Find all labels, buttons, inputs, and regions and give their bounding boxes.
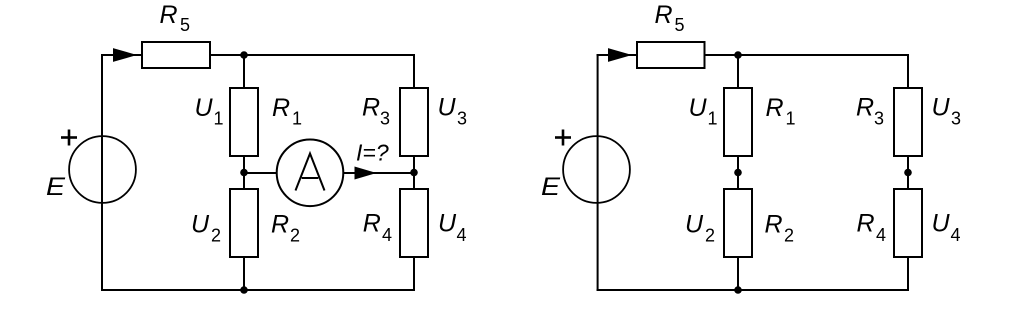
svg-text:5: 5 — [180, 15, 190, 35]
svg-text:E: E — [541, 173, 560, 201]
svg-text:R: R — [160, 1, 178, 29]
svg-text:2: 2 — [784, 225, 794, 245]
svg-text:I=?: I=? — [356, 140, 389, 166]
svg-text:U: U — [191, 211, 210, 239]
svg-text:R: R — [272, 94, 290, 122]
svg-text:4: 4 — [457, 225, 467, 245]
svg-text:3: 3 — [380, 108, 390, 128]
svg-text:R: R — [765, 211, 783, 239]
svg-text:R: R — [362, 94, 380, 122]
svg-text:R: R — [766, 94, 784, 122]
svg-text:U: U — [195, 94, 214, 122]
svg-text:R: R — [363, 210, 381, 238]
svg-text:R: R — [655, 1, 673, 29]
svg-text:1: 1 — [214, 108, 224, 128]
svg-text:1: 1 — [786, 108, 796, 128]
svg-text:R: R — [271, 211, 289, 239]
svg-text:1: 1 — [292, 108, 302, 128]
svg-text:R: R — [857, 210, 875, 238]
svg-text:2: 2 — [211, 225, 221, 245]
svg-text:3: 3 — [951, 108, 961, 128]
svg-text:5: 5 — [675, 15, 685, 35]
svg-text:E: E — [46, 173, 65, 201]
svg-text:1: 1 — [708, 108, 718, 128]
svg-text:4: 4 — [951, 225, 961, 245]
svg-text:3: 3 — [457, 108, 467, 128]
svg-text:2: 2 — [290, 225, 300, 245]
svg-text:3: 3 — [874, 108, 884, 128]
svg-text:U: U — [689, 94, 708, 122]
svg-text:R: R — [856, 94, 874, 122]
svg-text:U: U — [438, 210, 457, 238]
svg-text:U: U — [932, 94, 951, 122]
svg-text:U: U — [438, 94, 457, 122]
svg-text:U: U — [932, 210, 951, 238]
svg-text:4: 4 — [876, 225, 886, 245]
svg-text:4: 4 — [382, 225, 392, 245]
svg-text:2: 2 — [705, 225, 715, 245]
svg-text:U: U — [685, 211, 704, 239]
